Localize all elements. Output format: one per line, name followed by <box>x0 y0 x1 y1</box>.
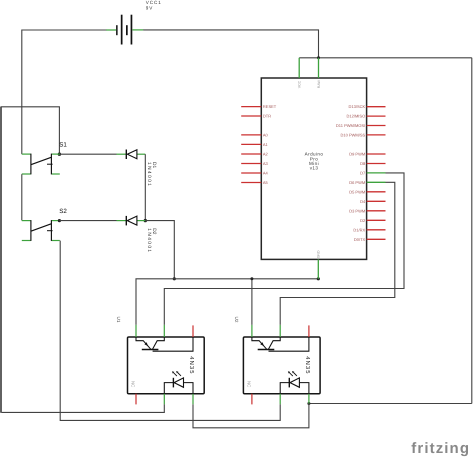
svg-text:RESET: RESET <box>263 104 277 109</box>
svg-text:1N4001: 1N4001 <box>146 162 152 187</box>
wire VCC pin to right riser <box>299 57 472 59</box>
svg-text:9V: 9V <box>146 6 153 11</box>
svg-text:S2: S2 <box>59 208 67 215</box>
svg-text:D12/MISO: D12/MISO <box>347 114 366 119</box>
U2 phototransistor <box>252 337 267 349</box>
svg-text:D6 PWM: D6 PWM <box>349 180 365 185</box>
U1 LED light arrows <box>174 373 177 376</box>
wire D1 anode down to D2 junction <box>144 154 146 220</box>
pin D6 PWM (green) <box>367 181 386 183</box>
left pins of Arduino (red) <box>241 107 261 183</box>
wire D6 to U2 base pin <box>280 182 395 325</box>
diode D2 1N4001 <box>117 216 146 226</box>
right pin labels <box>336 104 366 242</box>
Arduino Pro Mini U3 body <box>261 78 366 259</box>
U2 pin LED anode bottom-right (green) <box>308 394 310 404</box>
svg-text:D11 PWM/MOSI: D11 PWM/MOSI <box>336 123 365 128</box>
U2 pin NC bottom-left (red) <box>251 394 253 405</box>
svg-text:D10 PWM/SS: D10 PWM/SS <box>341 132 366 137</box>
U1 pin LED anode bottom-right (green) <box>192 394 194 405</box>
wire battery negative to S1 top-left <box>22 30 106 154</box>
U1 LED <box>164 383 173 394</box>
optocoupler U2 4N35 <box>243 325 320 405</box>
svg-text:4N35: 4N35 <box>304 356 311 374</box>
svg-text:A0: A0 <box>263 132 269 137</box>
svg-text:U2: U2 <box>234 317 239 323</box>
U2 pin emitter top-left (green) <box>251 325 253 337</box>
junction dot GND/diodes <box>173 277 176 280</box>
wire S2 bottom-right to U2 LED cathode <box>60 241 280 421</box>
wire U2 anode to U1 anode <box>193 404 309 428</box>
U1 pin LED cathode bottom-center (green) <box>163 394 165 405</box>
svg-text:D3 PWM: D3 PWM <box>349 208 365 213</box>
svg-text:U1: U1 <box>116 317 121 323</box>
battery pin positive (green) <box>132 29 143 31</box>
wire S1 to D1 cathode <box>59 153 116 155</box>
svg-text:D13/SCK: D13/SCK <box>349 104 366 109</box>
svg-text:A4: A4 <box>263 171 269 176</box>
svg-text:A2: A2 <box>263 152 269 157</box>
svg-text:GND: GND <box>317 250 321 258</box>
junction dot at RAW <box>317 56 320 59</box>
svg-text:D0/TX: D0/TX <box>354 237 366 242</box>
pin GND (green) <box>317 259 319 278</box>
U1 pin base top-right (red, NC) <box>192 325 194 337</box>
U2 LED <box>280 383 289 394</box>
diode D1 1N4001 <box>117 150 146 160</box>
switch S1 <box>22 154 60 175</box>
svg-text:VCC: VCC <box>298 80 302 88</box>
battery VCC1 <box>116 15 132 45</box>
switch S2 <box>22 220 60 241</box>
svg-text:D1/RX: D1/RX <box>353 227 365 232</box>
wire GND net horizontal <box>136 279 318 325</box>
pin VCC (green) <box>298 58 300 78</box>
wire S2 to D2 cathode <box>59 220 116 222</box>
svg-text:DTR: DTR <box>263 114 271 119</box>
wire right riser VCC <box>471 58 473 404</box>
optocoupler U1 4N35 <box>128 325 205 405</box>
svg-text:D8: D8 <box>360 161 366 166</box>
svg-text:S1: S1 <box>59 142 67 149</box>
junction dot GND pin <box>317 277 320 280</box>
wire left edge riser <box>0 107 2 413</box>
svg-text:RAW: RAW <box>317 79 321 88</box>
wire S1 bottom-left to S2 top-left <box>21 174 23 220</box>
wire GND to U2 pin1 <box>251 279 253 325</box>
U1 pin emitter top-left (green) <box>135 325 137 337</box>
battery pin negative (green) <box>106 29 116 31</box>
junction dot D1/D2 <box>144 219 147 222</box>
U2 body <box>243 337 320 394</box>
U2 pin collector top-center (green) <box>279 325 281 337</box>
U2 pin base top-right (red, NC) <box>308 325 310 337</box>
left pin labels <box>263 104 277 185</box>
label Arduino Pro Mini v13 <box>305 152 324 171</box>
wire D7 to U1 base pin <box>164 173 404 325</box>
svg-text:1N4001: 1N4001 <box>146 228 152 253</box>
junction dot at U2 anode <box>307 402 310 405</box>
svg-text:D4: D4 <box>360 199 366 204</box>
wire battery positive to RAW pin <box>143 30 318 58</box>
svg-text:D2: D2 <box>360 218 366 223</box>
U2 LED light arrows <box>289 373 292 376</box>
pin D7 (green) <box>367 172 386 174</box>
svg-text:fritzing: fritzing <box>411 440 470 457</box>
wire U1 LED cathode to left edge riser <box>1 404 164 412</box>
U1 phototransistor <box>136 337 151 349</box>
svg-text:A3: A3 <box>263 161 269 166</box>
junction dot at S1 top-right <box>58 153 61 156</box>
svg-text:VCC1: VCC1 <box>146 0 162 5</box>
svg-text:A5: A5 <box>263 180 269 185</box>
junction dot GND/U2 <box>250 277 253 280</box>
U1 body <box>128 337 205 394</box>
svg-text:NC: NC <box>131 381 136 387</box>
U1 pin collector top-center (green) <box>163 325 165 337</box>
wire left riser to S1 junction <box>1 107 60 154</box>
svg-text:D7: D7 <box>360 170 366 175</box>
pin RAW (green) <box>318 58 320 78</box>
wire diode junction to GND net <box>145 221 174 279</box>
U2 pin LED cathode bottom-center (green) <box>279 394 281 405</box>
svg-text:D9 PWM: D9 PWM <box>349 152 365 157</box>
U1 pin NC bottom-left (red) <box>135 394 137 405</box>
svg-text:4N35: 4N35 <box>188 356 195 374</box>
junction dot at S2 top-right <box>58 219 61 222</box>
svg-text:A1: A1 <box>263 142 269 147</box>
right pins of Arduino (red) <box>367 107 386 240</box>
svg-text:NC: NC <box>247 381 252 387</box>
svg-text:v13: v13 <box>310 166 319 171</box>
svg-text:D5 PWM: D5 PWM <box>349 189 365 194</box>
wire VCC riser to U2 LED anode <box>309 403 472 405</box>
